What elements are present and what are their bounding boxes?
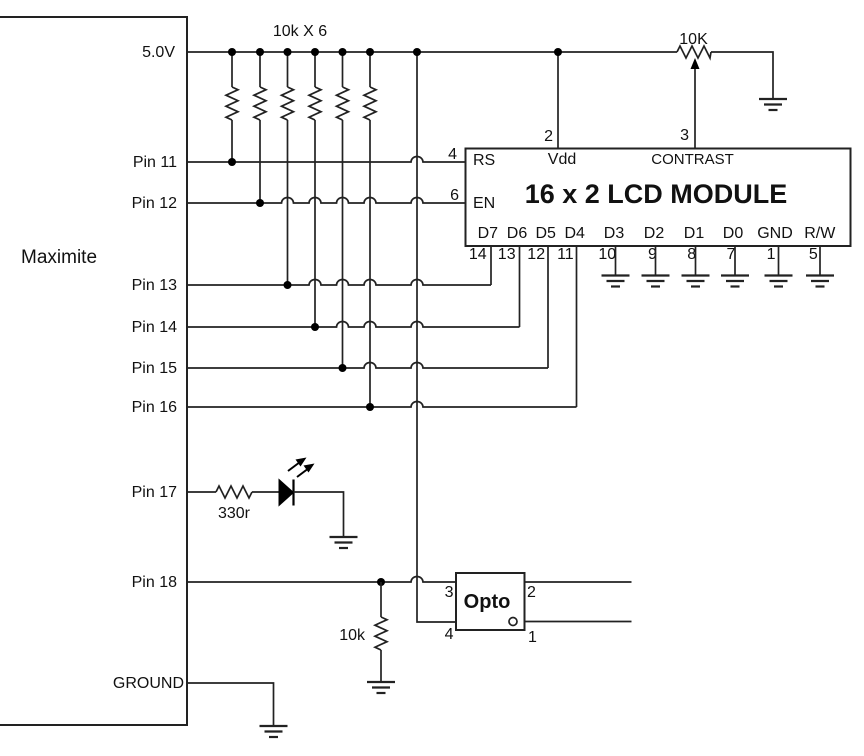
- svg-text:5: 5: [809, 246, 818, 263]
- wire LCD D7 stub: [490, 246, 492, 285]
- wire LCD D4 stub: [576, 246, 578, 407]
- svg-text:Pin 13: Pin 13: [132, 277, 177, 294]
- svg-text:D1: D1: [684, 225, 705, 242]
- svg-text:5.0V: 5.0V: [142, 44, 175, 61]
- svg-text:Opto: Opto: [464, 591, 511, 613]
- wire LCD D3 stub: [615, 246, 617, 276]
- svg-text:R/W: R/W: [804, 225, 836, 242]
- svg-text:1: 1: [528, 629, 537, 646]
- junction dot Pin18/R8: [377, 578, 385, 586]
- resistor R2 10k: [254, 52, 266, 203]
- junction dots on 5V rail: [228, 48, 562, 56]
- svg-text:330r: 330r: [218, 505, 251, 522]
- wire Pin 13 to LCD D7: [187, 280, 491, 286]
- junction dot Pin11/R1: [228, 158, 236, 166]
- optocoupler U2 box: [456, 573, 525, 630]
- resistor R8 10k: [375, 582, 387, 682]
- junction dot Pin13/R3: [284, 281, 292, 289]
- ground for D3: [602, 276, 630, 287]
- wire Pin 15 to LCD D5: [187, 363, 548, 368]
- svg-text:14: 14: [469, 246, 487, 263]
- wire LCD D5 stub: [547, 246, 549, 368]
- opto pin 1 indicator circle: [509, 618, 517, 626]
- svg-text:RS: RS: [473, 152, 495, 169]
- ground for GND pin: [765, 276, 793, 287]
- svg-text:EN: EN: [473, 195, 495, 212]
- resistor R6 10k: [364, 52, 376, 407]
- svg-text:13: 13: [498, 246, 516, 263]
- wire Pin 18 to opto pin 3: [187, 577, 456, 583]
- junction dot Pin12/R2: [256, 199, 264, 207]
- svg-text:Pin 15: Pin 15: [132, 360, 177, 377]
- ground for R/W: [806, 276, 834, 287]
- svg-text:12: 12: [527, 246, 545, 263]
- svg-text:7: 7: [726, 246, 735, 263]
- resistor R1 10k: [226, 52, 238, 162]
- wire LCD D2 stub: [655, 246, 657, 276]
- svg-text:4: 4: [445, 626, 454, 643]
- LED D1 anode triangle: [279, 480, 294, 506]
- ground for D1: [682, 276, 710, 287]
- svg-text:GND: GND: [757, 225, 793, 242]
- svg-text:10k: 10k: [339, 627, 366, 644]
- wire GROUND pin to ground symbol: [187, 683, 274, 726]
- svg-text:10K: 10K: [679, 31, 708, 48]
- wire Pin 11 to LCD RS: [187, 157, 466, 163]
- wire trunk from 5V rail down to opto pin 4: [417, 52, 456, 622]
- svg-text:3: 3: [680, 127, 689, 144]
- wire opto pin 1: [525, 621, 632, 623]
- svg-text:Maximite: Maximite: [21, 247, 97, 268]
- svg-text:6: 6: [450, 187, 459, 204]
- wire Pin 12 to LCD EN: [187, 198, 466, 204]
- potentiometer wiper arrow to CONTRAST: [691, 58, 700, 149]
- wire LCD R/W stub: [819, 246, 821, 276]
- resistor R3 10k: [282, 52, 294, 285]
- wire Pin 16 to LCD D4: [187, 402, 577, 408]
- potentiometer VR1 10K body: [677, 46, 711, 58]
- wire Vdd stub: [557, 52, 559, 149]
- svg-text:D5: D5: [535, 225, 556, 242]
- svg-text:2: 2: [527, 584, 536, 601]
- resistor R7 330r: [216, 486, 252, 498]
- ground for Maximite GROUND: [260, 726, 288, 737]
- svg-text:Vdd: Vdd: [548, 151, 576, 168]
- svg-text:CONTRAST: CONTRAST: [651, 151, 734, 168]
- svg-text:Pin 18: Pin 18: [132, 574, 177, 591]
- svg-text:D2: D2: [644, 225, 665, 242]
- LCD module box: [466, 149, 851, 247]
- wire pot right to ground: [711, 52, 773, 99]
- svg-text:D0: D0: [723, 225, 744, 242]
- svg-text:3: 3: [445, 584, 454, 601]
- svg-text:Pin 12: Pin 12: [132, 195, 177, 212]
- svg-text:Pin 17: Pin 17: [132, 484, 177, 501]
- wire LCD D6 stub: [519, 246, 521, 327]
- junction dot Pin16/R6: [366, 403, 374, 411]
- svg-text:D7: D7: [478, 225, 499, 242]
- svg-text:Pin 16: Pin 16: [132, 399, 177, 416]
- svg-text:Pin 14: Pin 14: [132, 319, 177, 336]
- ground for D2: [642, 276, 670, 287]
- wire resistor to LED: [252, 491, 279, 493]
- wire 5V rail: [187, 51, 677, 53]
- svg-text:10: 10: [598, 246, 616, 263]
- junction dot Pin15/R5: [339, 364, 347, 372]
- LED emission arrow 2: [297, 464, 315, 478]
- svg-text:16 x 2 LCD MODULE: 16 x 2 LCD MODULE: [525, 179, 788, 209]
- ground for D0: [721, 276, 749, 287]
- svg-text:GROUND: GROUND: [113, 675, 184, 692]
- resistor R4 10k: [309, 52, 321, 327]
- junction dot Pin14/R4: [311, 323, 319, 331]
- svg-text:4: 4: [448, 146, 457, 163]
- svg-text:11: 11: [557, 246, 574, 263]
- wire Pin 14 to LCD D6: [187, 322, 520, 328]
- wire LCD D0 stub: [734, 246, 736, 276]
- resistor R5 10k: [337, 52, 349, 368]
- wire LED cathode to ground: [294, 492, 344, 537]
- wire LCD GND stub: [778, 246, 780, 276]
- svg-text:D6: D6: [507, 225, 528, 242]
- svg-text:D3: D3: [604, 225, 625, 242]
- svg-text:D4: D4: [564, 225, 585, 242]
- LED emission arrow 1: [288, 458, 307, 472]
- wire LCD D1 stub: [695, 246, 697, 276]
- svg-text:10k X 6: 10k X 6: [273, 23, 327, 40]
- Maximite MCU box U1: [0, 17, 187, 725]
- svg-text:Pin 11: Pin 11: [133, 154, 177, 171]
- wire Pin 17 to resistor: [187, 491, 216, 493]
- ground for potentiometer: [759, 99, 787, 110]
- wire opto pin 2: [525, 581, 632, 583]
- ground for R8: [367, 682, 395, 693]
- svg-text:2: 2: [544, 128, 553, 145]
- ground for LED: [330, 537, 358, 548]
- svg-text:1: 1: [767, 246, 776, 263]
- LED cathode bar: [292, 480, 294, 506]
